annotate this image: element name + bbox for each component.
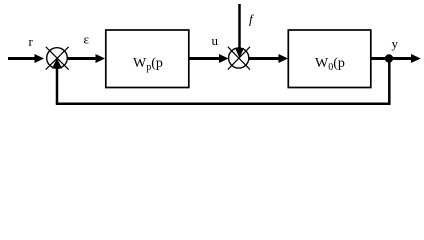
- svg-text:u: u: [212, 33, 219, 48]
- svg-text:ε: ε: [84, 32, 90, 47]
- svg-text:y: y: [392, 36, 399, 51]
- svg-text:f: f: [249, 12, 255, 27]
- svg-text:r: r: [29, 34, 34, 49]
